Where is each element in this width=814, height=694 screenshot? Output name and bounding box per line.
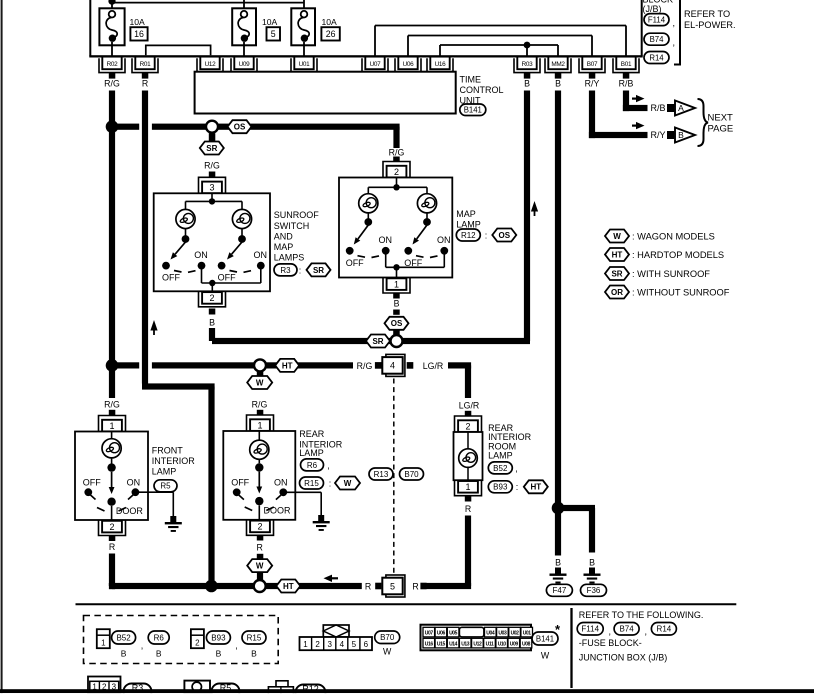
svg-text:R/B: R/B: [650, 103, 665, 113]
svg-text:MAP: MAP: [274, 242, 294, 252]
svg-text:LG/R: LG/R: [423, 361, 444, 371]
svg-text:OFF: OFF: [162, 273, 180, 283]
svg-text:R/Y: R/Y: [650, 130, 665, 140]
svg-text:B: B: [209, 317, 215, 327]
svg-text:,: ,: [609, 627, 612, 637]
svg-text:R/G: R/G: [104, 399, 120, 409]
svg-text:U15: U15: [437, 642, 446, 648]
svg-text:U01: U01: [523, 631, 532, 637]
svg-text:1: 1: [394, 279, 399, 289]
svg-text:REAR: REAR: [299, 429, 325, 439]
svg-text:W: W: [541, 650, 550, 660]
svg-text:U07: U07: [370, 61, 382, 68]
svg-text:B07: B07: [587, 61, 598, 68]
svg-text:U06: U06: [403, 61, 415, 68]
svg-text:SR: SR: [611, 269, 622, 278]
svg-text:LAMP: LAMP: [152, 467, 177, 477]
svg-text:5: 5: [271, 29, 276, 39]
svg-text:B: B: [555, 558, 561, 568]
svg-text:B: B: [524, 79, 530, 89]
svg-text:U12: U12: [473, 642, 482, 648]
svg-text:3: 3: [209, 183, 214, 193]
svg-text:,: ,: [515, 463, 518, 473]
svg-text:OFF: OFF: [404, 258, 422, 268]
svg-text:B: B: [678, 130, 684, 140]
svg-text:1: 1: [109, 421, 114, 431]
svg-text:FRONT: FRONT: [152, 446, 183, 456]
svg-text:,: ,: [235, 641, 238, 651]
svg-text:TIME: TIME: [460, 74, 482, 84]
svg-text:,: ,: [673, 38, 676, 48]
svg-text:: WITHOUT SUNROOF: : WITHOUT SUNROOF: [632, 287, 730, 297]
svg-text:EL-POWER.: EL-POWER.: [684, 20, 736, 30]
svg-text:B01: B01: [621, 61, 632, 68]
svg-text:B74: B74: [619, 625, 634, 634]
svg-text:10A: 10A: [262, 17, 278, 27]
svg-text:U02: U02: [511, 631, 520, 637]
svg-text:R01: R01: [140, 61, 152, 68]
svg-text:SWITCH: SWITCH: [274, 221, 310, 231]
svg-text:,: ,: [327, 460, 330, 470]
svg-text:U09: U09: [510, 642, 519, 648]
svg-text:4: 4: [390, 361, 395, 371]
svg-text:F47: F47: [553, 586, 567, 595]
svg-text:2: 2: [209, 293, 214, 303]
svg-text:5: 5: [352, 640, 357, 649]
svg-text:-FUSE BLOCK-: -FUSE BLOCK-: [579, 638, 642, 648]
svg-text:(J/B): (J/B): [643, 4, 662, 14]
svg-text:B141: B141: [464, 106, 482, 115]
svg-text:1: 1: [303, 640, 308, 649]
svg-text:B70: B70: [404, 470, 419, 479]
svg-text:PAGE: PAGE: [708, 123, 734, 134]
svg-text:R/G: R/G: [252, 399, 268, 409]
svg-text:OFF: OFF: [346, 258, 364, 268]
svg-text:1: 1: [465, 482, 470, 492]
svg-text::: :: [329, 478, 332, 488]
svg-text:W: W: [383, 647, 392, 657]
svg-text::: :: [299, 265, 302, 275]
svg-text:4: 4: [340, 640, 345, 649]
svg-text:: WAGON MODELS: : WAGON MODELS: [632, 231, 715, 241]
svg-text:HT: HT: [283, 582, 294, 591]
svg-text:U03: U03: [498, 631, 507, 637]
svg-text:2: 2: [257, 522, 262, 532]
svg-text:ON: ON: [437, 235, 451, 245]
svg-text:OS: OS: [499, 231, 511, 240]
svg-text:3: 3: [327, 640, 332, 649]
svg-text:U01: U01: [299, 61, 311, 68]
svg-text:SUNROOF: SUNROOF: [274, 210, 320, 220]
svg-text:F36: F36: [587, 586, 601, 595]
svg-text:ON: ON: [254, 250, 268, 260]
svg-text:2: 2: [465, 421, 470, 431]
svg-text:2: 2: [394, 167, 399, 177]
svg-text:R: R: [465, 504, 471, 514]
svg-text:1: 1: [101, 639, 106, 648]
svg-text:DOOR: DOOR: [264, 506, 292, 516]
svg-text:F114: F114: [648, 15, 666, 24]
svg-text:OS: OS: [234, 123, 246, 132]
svg-text:SR: SR: [372, 337, 383, 346]
svg-text:U10: U10: [498, 642, 507, 648]
svg-text:5: 5: [390, 581, 395, 591]
svg-text:: WITH SUNROOF: : WITH SUNROOF: [632, 269, 710, 279]
svg-text:10A: 10A: [322, 17, 338, 27]
svg-text:R15: R15: [247, 633, 262, 642]
svg-text:U05: U05: [449, 631, 458, 637]
svg-text:LAMP: LAMP: [299, 448, 324, 458]
svg-text:U06: U06: [437, 631, 446, 637]
svg-text:U16: U16: [435, 61, 447, 68]
svg-text:B: B: [216, 648, 222, 658]
svg-text:U13: U13: [461, 642, 470, 648]
svg-text:R/G: R/G: [389, 147, 405, 157]
svg-text:W: W: [256, 562, 264, 571]
svg-text:R/Y: R/Y: [585, 79, 600, 89]
svg-text:HT: HT: [282, 361, 293, 370]
svg-text:R3: R3: [280, 266, 291, 275]
svg-text:2: 2: [315, 640, 320, 649]
svg-text:B52: B52: [116, 633, 131, 642]
svg-text:JUNCTION BOX (J/B): JUNCTION BOX (J/B): [579, 653, 668, 663]
svg-text:ON: ON: [194, 250, 208, 260]
svg-text:OFF: OFF: [83, 477, 101, 487]
svg-text:LG/R: LG/R: [459, 400, 480, 410]
svg-text:R: R: [142, 79, 148, 89]
svg-text:ON: ON: [127, 477, 141, 487]
svg-text:ON: ON: [378, 235, 392, 245]
svg-text:B141: B141: [536, 634, 554, 643]
svg-text:W: W: [344, 479, 352, 488]
svg-text:U11: U11: [486, 642, 494, 648]
svg-text:2: 2: [195, 639, 200, 648]
svg-text:B93: B93: [493, 483, 508, 492]
svg-text:U04: U04: [486, 631, 495, 637]
svg-text:NEXT: NEXT: [708, 112, 734, 123]
svg-text:OR: OR: [611, 288, 623, 297]
svg-text:2: 2: [109, 522, 114, 532]
svg-text:LAMP: LAMP: [488, 451, 513, 461]
svg-text:B: B: [394, 299, 400, 309]
svg-text::: :: [516, 482, 519, 492]
svg-text:U08: U08: [522, 642, 531, 648]
svg-text:R13: R13: [374, 470, 389, 479]
svg-text:B93: B93: [211, 633, 226, 642]
svg-text:U07: U07: [425, 631, 434, 637]
svg-text:MAP: MAP: [456, 209, 476, 219]
svg-text:LAMPS: LAMPS: [274, 253, 305, 263]
svg-text:SR: SR: [206, 144, 217, 153]
svg-text:R: R: [257, 543, 263, 553]
svg-text:B74: B74: [650, 35, 665, 44]
svg-text:R: R: [412, 581, 418, 591]
svg-text:B: B: [156, 648, 162, 658]
svg-text:: HARDTOP MODELS: : HARDTOP MODELS: [632, 250, 724, 260]
svg-text:R/G: R/G: [104, 79, 120, 89]
svg-text:R: R: [365, 581, 371, 591]
svg-text:B: B: [121, 648, 127, 658]
svg-text:B: B: [555, 79, 561, 89]
svg-text:OS: OS: [391, 319, 403, 328]
svg-text:,: ,: [645, 627, 648, 637]
svg-text:R14: R14: [649, 53, 664, 62]
svg-text:LAMP: LAMP: [456, 220, 481, 230]
svg-text:W: W: [613, 232, 621, 241]
svg-text:F114: F114: [581, 625, 599, 634]
svg-text:6: 6: [364, 640, 369, 649]
svg-text:26: 26: [326, 29, 336, 39]
svg-text:R: R: [109, 542, 115, 552]
svg-text:R12: R12: [461, 231, 476, 240]
svg-text:A: A: [678, 103, 684, 113]
svg-text:B: B: [589, 558, 595, 568]
svg-text:10A: 10A: [130, 17, 146, 27]
svg-text:REFER TO THE FOLLOWING.: REFER TO THE FOLLOWING.: [579, 610, 704, 620]
svg-text:R6: R6: [307, 461, 318, 470]
svg-text:MM2: MM2: [551, 61, 565, 68]
svg-text:16: 16: [134, 29, 144, 39]
svg-text:OFF: OFF: [231, 477, 249, 487]
svg-text:R/B: R/B: [619, 79, 634, 89]
svg-text:U14: U14: [449, 642, 458, 648]
svg-text:CONTROL: CONTROL: [460, 85, 504, 95]
svg-text:ON: ON: [274, 477, 288, 487]
svg-text:R15: R15: [304, 479, 319, 488]
svg-text:U12: U12: [205, 61, 217, 68]
svg-text:INTERIOR: INTERIOR: [152, 456, 196, 466]
svg-text:U16: U16: [425, 642, 434, 648]
svg-text::: :: [485, 230, 488, 240]
svg-text:B70: B70: [380, 633, 395, 642]
svg-text:,: ,: [141, 641, 144, 651]
svg-text:1: 1: [257, 420, 262, 430]
svg-text:R/G: R/G: [204, 161, 220, 171]
svg-text:R6: R6: [154, 633, 165, 642]
svg-text:OFF: OFF: [218, 273, 236, 283]
svg-text:HT: HT: [530, 483, 541, 492]
svg-text:R03: R03: [522, 61, 534, 68]
svg-text:REFER TO: REFER TO: [684, 9, 730, 19]
svg-text:R5: R5: [160, 482, 171, 491]
svg-text:B52: B52: [493, 464, 508, 473]
svg-text:AND: AND: [274, 232, 294, 242]
svg-text:,: ,: [673, 18, 676, 28]
svg-text:W: W: [256, 378, 264, 387]
svg-text:HT: HT: [612, 250, 623, 259]
svg-text:B: B: [251, 648, 257, 658]
svg-text:U09: U09: [239, 61, 251, 68]
svg-text:SR: SR: [313, 266, 324, 275]
svg-text:R14: R14: [657, 625, 672, 634]
svg-text:R02: R02: [107, 61, 119, 68]
svg-text:DOOR: DOOR: [116, 506, 144, 516]
svg-text:R/G: R/G: [357, 361, 373, 371]
